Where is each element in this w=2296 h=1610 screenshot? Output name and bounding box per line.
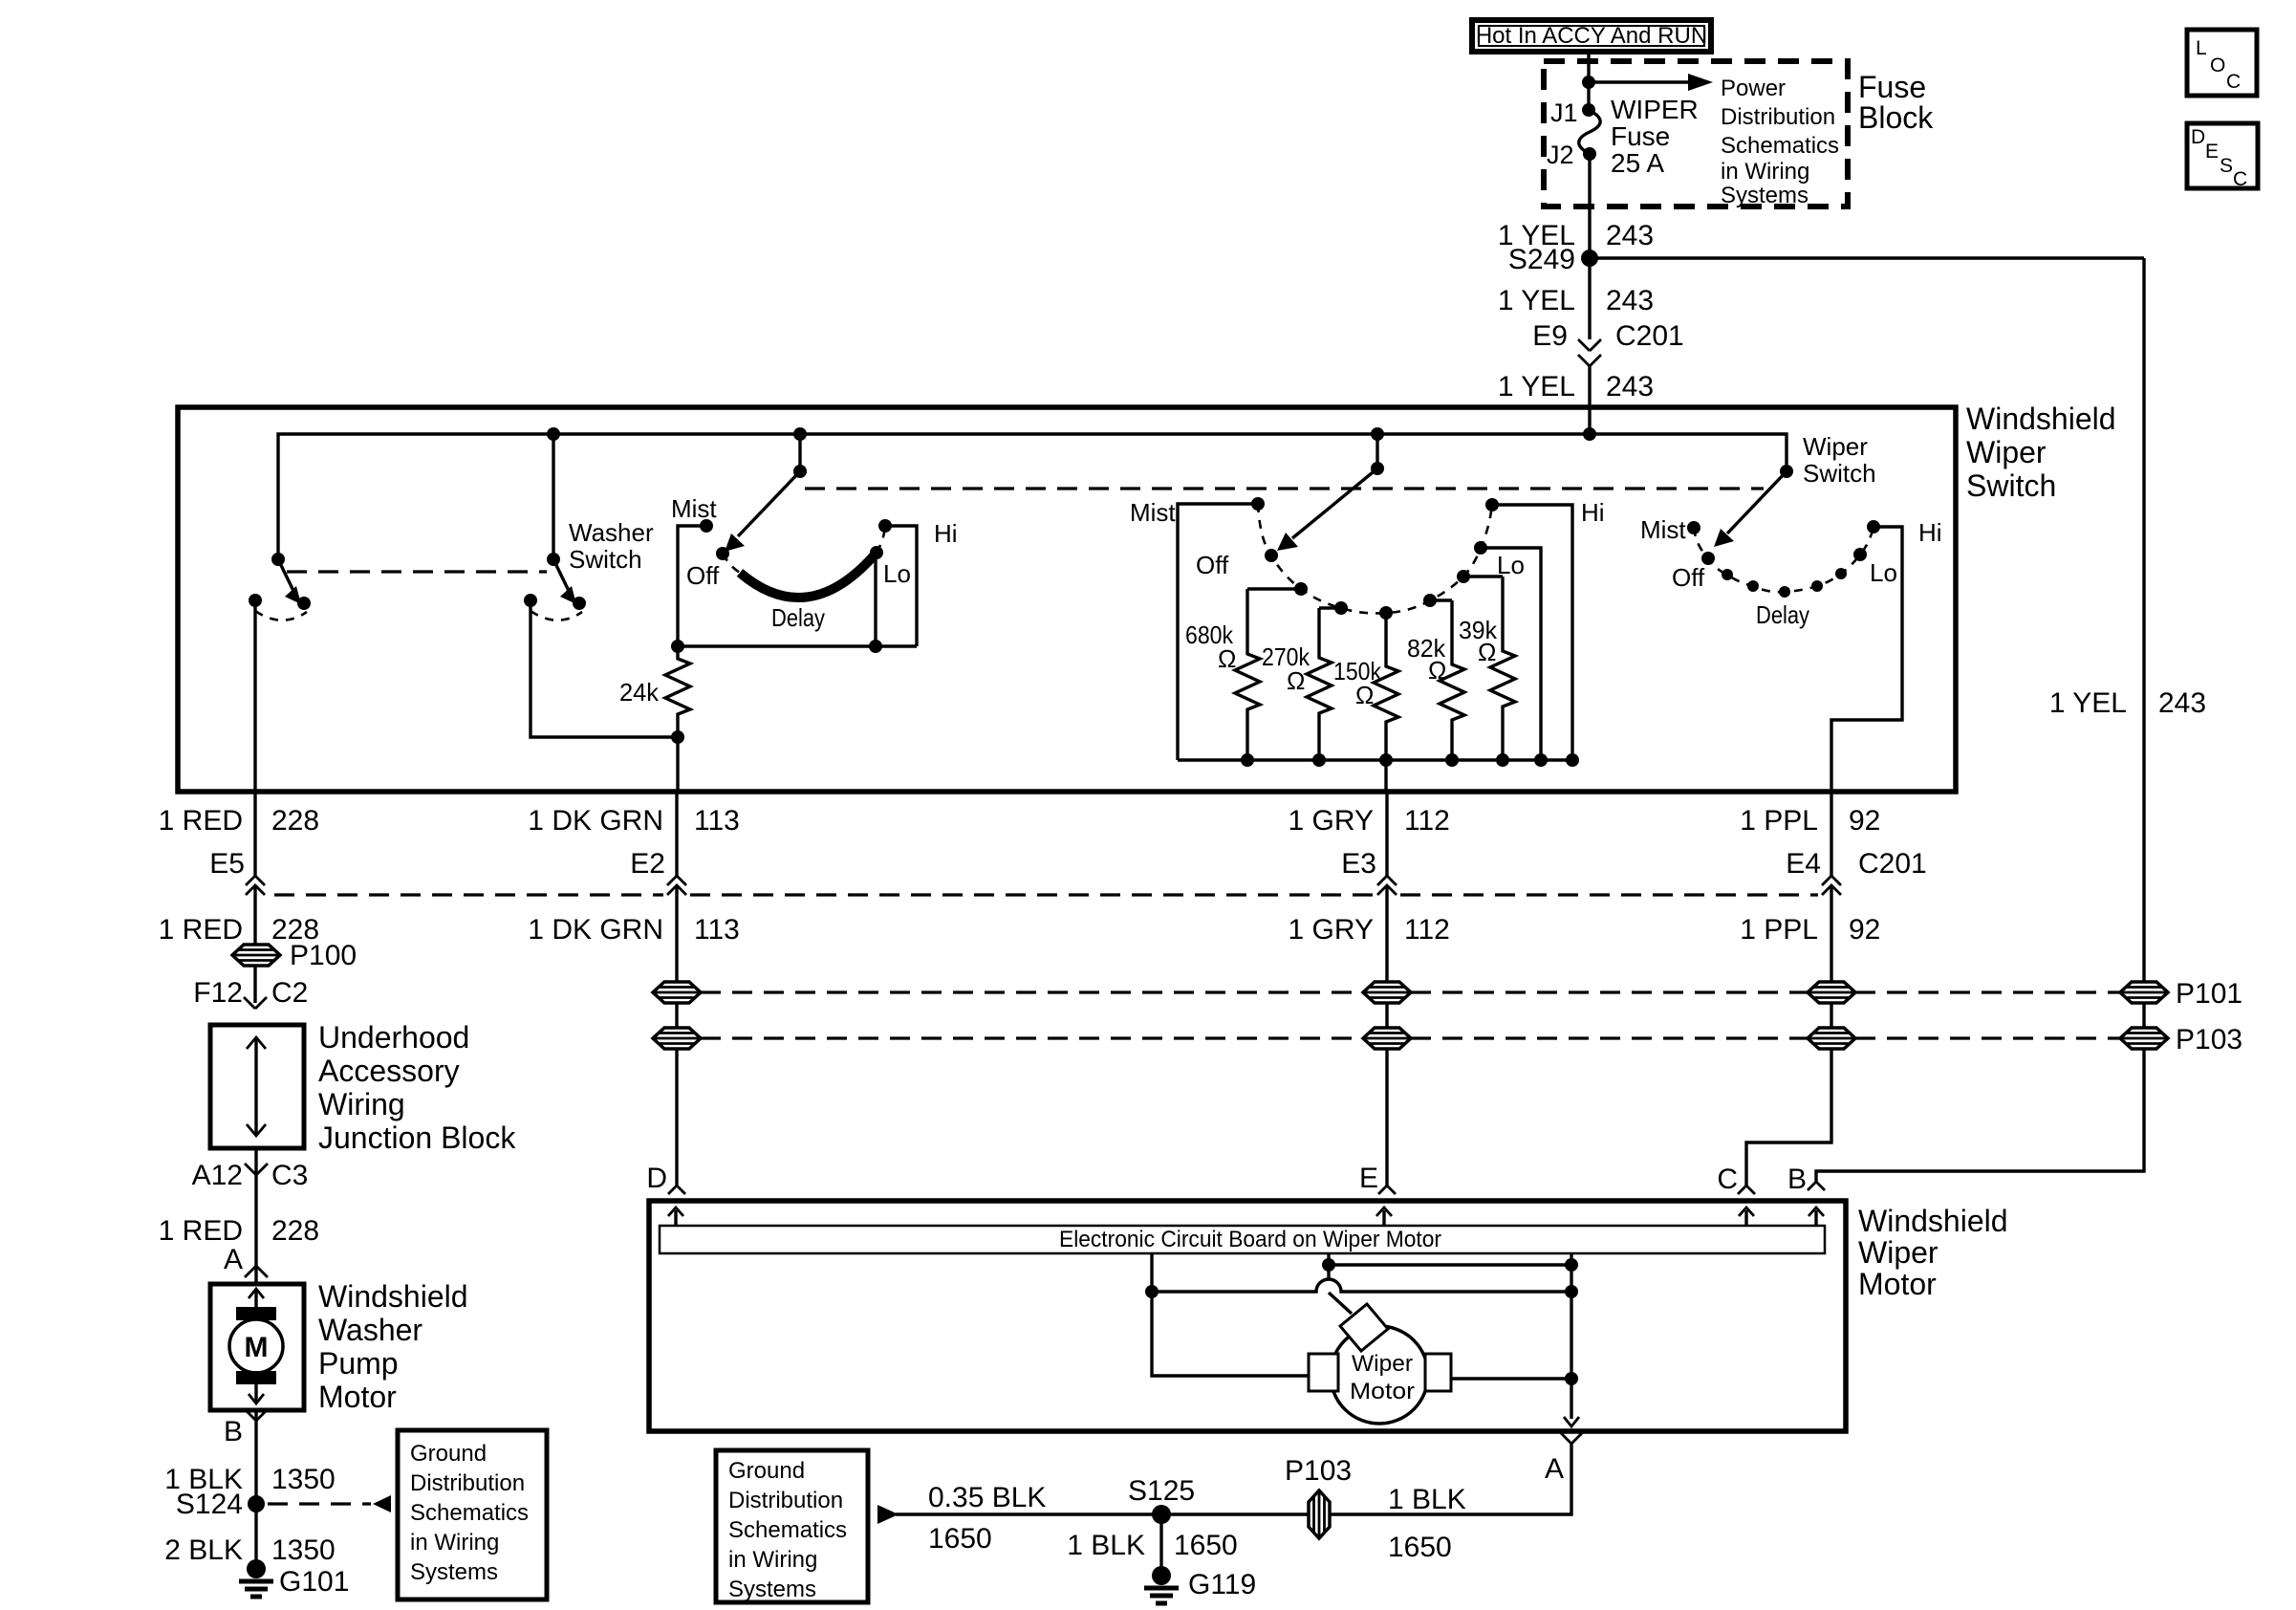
splice S249	[1581, 250, 1598, 267]
wire 1 YEL 243 right side vertical	[1816, 258, 2144, 1182]
svg-text:1 YEL: 1 YEL	[2049, 687, 2127, 719]
wire motor right terminal to right leg	[1451, 1377, 1571, 1380]
svg-text:Windshield: Windshield	[1858, 1204, 2008, 1238]
svg-text:P101: P101	[2176, 978, 2242, 1010]
washer switch pole 1 moving contact	[297, 597, 311, 610]
svg-text:1 GRY: 1 GRY	[1289, 805, 1375, 837]
connector C201 pin E4	[1822, 876, 1841, 885]
svg-text:0.35 BLK: 0.35 BLK	[928, 1482, 1046, 1513]
svg-text:Hi: Hi	[1918, 518, 1942, 547]
washer switch pole 1 pivot	[271, 553, 285, 566]
wiper motor terminal left	[1309, 1354, 1338, 1391]
wire center top link	[1329, 1263, 1571, 1266]
svg-text:Accessory: Accessory	[318, 1054, 460, 1088]
svg-text:Hi: Hi	[934, 519, 958, 548]
svg-text:228: 228	[271, 1215, 319, 1247]
label 1 GRY 112 (row2)	[1289, 914, 1450, 946]
svg-text:Wiring: Wiring	[318, 1087, 405, 1121]
wire E2 below box	[675, 792, 678, 876]
wire from S249 to right edge	[1590, 256, 2144, 259]
label 1 RED 228 (row3)	[159, 1215, 319, 1247]
svg-text:Electronic Circuit Board on Wi: Electronic Circuit Board on Wiper Motor	[1059, 1227, 1441, 1252]
right switch Mist contact	[1687, 521, 1700, 534]
node Lo rail bottom	[1534, 753, 1548, 767]
svg-text:Block: Block	[1858, 100, 1934, 135]
resistor R 270k	[1307, 608, 1332, 760]
label Wiper Switch (right pole)	[1803, 432, 1876, 488]
svg-text:Wiper: Wiper	[1858, 1235, 1939, 1270]
wire right Hi output to box edge (E4)	[1831, 527, 1902, 792]
svg-text:S249: S249	[1508, 244, 1575, 275]
pass-through grommet P103-YEL	[2120, 1028, 2168, 1049]
svg-text:A: A	[224, 1244, 243, 1275]
label 1 BLK 1650 (right)	[1388, 1484, 1466, 1563]
wire Hi contact right and down	[885, 526, 917, 646]
wiper motor armature circle	[1331, 1326, 1428, 1424]
svg-text:in Wiring: in Wiring	[410, 1530, 499, 1556]
svg-text:Hot In ACCY And RUN: Hot In ACCY And RUN	[1476, 23, 1707, 49]
center switch tap dot 680k	[1294, 582, 1308, 596]
svg-text:Distribution: Distribution	[728, 1488, 843, 1513]
label 1 PPL 92 (row2)	[1740, 914, 1880, 946]
pin J1	[1582, 103, 1595, 117]
svg-text:A: A	[1545, 1453, 1564, 1485]
node right leg motor	[1565, 1372, 1578, 1385]
label 1 DK GRN 113 (row2)	[528, 914, 740, 946]
center switch tap dot 150k	[1379, 606, 1393, 620]
center switch dashed arc	[1258, 504, 1492, 613]
svg-text:Switch: Switch	[1803, 459, 1876, 488]
svg-text:1 PPL: 1 PPL	[1740, 914, 1818, 946]
svg-text:G119: G119	[1188, 1569, 1256, 1600]
svg-text:113: 113	[694, 914, 740, 946]
svg-text:Ω: Ω	[1355, 681, 1374, 709]
svg-text:Fuse: Fuse	[1611, 121, 1670, 151]
center switch Mist contact	[1251, 497, 1265, 511]
svg-text:Off: Off	[686, 561, 720, 590]
svg-text:Power: Power	[1721, 76, 1786, 101]
svg-text:24k: 24k	[619, 678, 660, 707]
LOC button box	[2187, 30, 2257, 96]
connector chevron pin B	[1808, 1182, 1825, 1190]
delay switch thick delay arc	[740, 553, 877, 598]
svg-text:Windshield: Windshield	[318, 1279, 468, 1314]
fuse block dashed box	[1544, 61, 1848, 207]
pass-through grommet P101-E2	[653, 982, 701, 1003]
wiper motor terminal right	[1425, 1354, 1451, 1391]
svg-text:112: 112	[1404, 805, 1450, 837]
svg-text:1 PPL: 1 PPL	[1740, 805, 1818, 837]
node center pivot feed	[1371, 427, 1384, 441]
svg-text:Mist: Mist	[1640, 515, 1686, 544]
node right leg top	[1565, 1258, 1578, 1272]
svg-text:Off: Off	[1672, 563, 1705, 592]
svg-text:112: 112	[1404, 914, 1450, 946]
resistor 24k	[665, 646, 690, 737]
svg-text:D: D	[2191, 126, 2205, 148]
center wiper switch pivot	[1371, 462, 1384, 475]
wire pump to ground	[254, 1410, 257, 1564]
node 24k top	[671, 640, 684, 653]
label E4 C201	[1786, 848, 1926, 880]
wire washer pole 2 to 24k bottom node	[531, 600, 678, 737]
center switch tap dot 39k	[1457, 570, 1470, 583]
label 1 YEL 243 (right vertical)	[2049, 687, 2206, 719]
connector P103 (ground run)	[1309, 1490, 1330, 1538]
node 270k bottom	[1312, 753, 1326, 767]
right switch dashed arc	[1694, 527, 1874, 592]
wire center output to box edge (E3)	[1384, 760, 1387, 792]
svg-text:92: 92	[1849, 914, 1880, 946]
svg-text:C: C	[2226, 71, 2241, 93]
svg-text:Motor: Motor	[1858, 1267, 1937, 1301]
connector C201 pin E3	[1377, 876, 1397, 885]
svg-text:243: 243	[1606, 371, 1654, 402]
pass-through grommet P103-E2	[653, 1028, 701, 1049]
wire pin A to ground run	[896, 1444, 1571, 1514]
right switch delay dot 4	[1811, 580, 1823, 592]
wire brush feed diagonal	[1329, 1293, 1352, 1314]
svg-text:Junction Block: Junction Block	[318, 1120, 516, 1155]
right switch Off contact	[1701, 552, 1715, 565]
connector chevron A12	[245, 1164, 268, 1175]
svg-text:243: 243	[1606, 285, 1654, 316]
svg-text:Schematics: Schematics	[410, 1500, 529, 1526]
svg-text:1 DK GRN: 1 DK GRN	[528, 914, 663, 946]
svg-text:243: 243	[1606, 220, 1654, 251]
svg-text:25 A: 25 A	[1611, 148, 1664, 178]
svg-text:C201: C201	[1615, 320, 1684, 352]
svg-text:1650: 1650	[1388, 1532, 1452, 1563]
delay switch dashed arc off-delay	[723, 554, 740, 573]
connector C201 pin E9	[1532, 320, 1683, 366]
label 1 YEL 243 (row 1)	[1498, 220, 1654, 251]
svg-text:Underhood: Underhood	[318, 1020, 469, 1055]
wire center Mist contact to left rail	[1178, 504, 1258, 760]
wire from header into fuse block	[1587, 54, 1590, 110]
wire washer pole1 contact to box edge (E5)	[253, 600, 256, 792]
connector P103 dashed line	[701, 1036, 2120, 1039]
svg-text:Wiper: Wiper	[1803, 432, 1868, 461]
svg-text:Ω: Ω	[1287, 666, 1305, 695]
ground distribution reference box (left)	[398, 1430, 547, 1599]
node left leg junction	[1145, 1285, 1159, 1298]
wire E2 to wiper motor pin D	[675, 885, 678, 1186]
resistor R 680k	[1235, 589, 1260, 760]
wire 24k bottom to box edge (E2)	[676, 737, 679, 792]
connector chevron pin A pump	[245, 1266, 268, 1277]
svg-text:E: E	[1359, 1163, 1378, 1194]
svg-text:1 BLK: 1 BLK	[1067, 1530, 1145, 1561]
delay wiper switch pivot	[793, 465, 807, 478]
svg-text:228: 228	[271, 805, 319, 837]
svg-text:Delay: Delay	[1756, 600, 1809, 629]
washer pump bottom arrow	[254, 1383, 257, 1403]
washer switch pole 2 fixed contact	[524, 594, 537, 607]
label 1 RED 228 (row1)	[159, 805, 319, 837]
svg-text:2 BLK: 2 BLK	[164, 1534, 243, 1566]
resistor network bottom rail	[1178, 758, 1572, 761]
svg-text:1 DK GRN: 1 DK GRN	[528, 805, 663, 837]
svg-text:Hi: Hi	[1581, 498, 1605, 527]
node 24k bottom	[671, 730, 684, 744]
center wiper switch arm	[1292, 468, 1377, 538]
svg-text:P100: P100	[290, 940, 357, 971]
delay switch Hi contact	[878, 519, 892, 533]
svg-text:D: D	[646, 1163, 667, 1194]
node yel entry	[1583, 427, 1596, 441]
svg-text:J2: J2	[1547, 141, 1574, 169]
right switch delay dot 5	[1835, 568, 1847, 579]
delay switch dashed arc delay-hi	[877, 528, 885, 553]
wiper switch gang dashed link	[805, 487, 1764, 490]
node center leg junction	[1322, 1258, 1335, 1272]
washer pump brush bottom	[236, 1371, 276, 1384]
svg-text:A12: A12	[192, 1160, 243, 1191]
svg-text:in Wiring: in Wiring	[728, 1547, 817, 1573]
center switch tap dot 270k	[1334, 601, 1348, 615]
node right leg middle	[1565, 1285, 1578, 1298]
label Windshield Wiper Switch	[1966, 402, 2116, 503]
label 1 YEL 243 (row 2)	[1498, 285, 1654, 316]
wire board center leg	[1327, 1253, 1330, 1279]
connector chevron pin C	[1738, 1186, 1755, 1194]
pass-through grommet P100	[232, 945, 280, 966]
label 1 BLK 1650 (center)	[1067, 1530, 1237, 1561]
connector chevron pin B pump	[245, 1409, 268, 1421]
svg-text:Systems: Systems	[410, 1559, 498, 1585]
svg-text:1650: 1650	[928, 1523, 992, 1555]
right wiper switch pivot	[1780, 465, 1793, 478]
resistor R 82k	[1440, 600, 1464, 760]
label 1 PPL 92 (row1)	[1740, 805, 1880, 837]
svg-text:Lo: Lo	[883, 559, 911, 588]
svg-text:B: B	[1787, 1164, 1807, 1195]
wire center Lo contact down	[1481, 548, 1541, 760]
svg-text:Distribution: Distribution	[410, 1470, 525, 1496]
connector chevron pin A	[1560, 1432, 1583, 1444]
wire E5 to junction block	[253, 885, 256, 1003]
splice S125	[1152, 1505, 1171, 1524]
node delay pivot feed	[793, 427, 807, 441]
svg-text:Fuse: Fuse	[1858, 70, 1926, 104]
S124 dashed reference link	[268, 1502, 371, 1505]
svg-text:113: 113	[694, 805, 740, 837]
connector P101 dashed line	[701, 990, 2120, 993]
right switch delay dot 2	[1747, 580, 1759, 592]
wire E4 to wiper motor pin C	[1746, 885, 1831, 1186]
center switch Hi contact	[1485, 498, 1499, 511]
svg-text:Ω: Ω	[1478, 638, 1496, 666]
svg-text:1 RED: 1 RED	[159, 805, 243, 837]
arrow right leg to box edge	[1564, 1417, 1579, 1426]
wire board left leg	[1152, 1253, 1309, 1376]
splice S124	[248, 1495, 265, 1512]
svg-text:C: C	[2233, 168, 2247, 190]
svg-text:WIPER: WIPER	[1611, 95, 1699, 124]
svg-text:E9: E9	[1532, 320, 1568, 352]
svg-text:C: C	[1717, 1164, 1738, 1195]
svg-text:Windshield: Windshield	[1966, 402, 2116, 436]
right switch delay dot 3	[1779, 586, 1790, 598]
washer switch pole 1 arm	[278, 559, 293, 591]
junction block box	[210, 1025, 304, 1148]
pass-through grommet P101-E3	[1363, 982, 1411, 1003]
wire E3 to wiper motor pin E	[1385, 885, 1388, 1186]
svg-text:Systems: Systems	[728, 1577, 816, 1602]
svg-text:Ground: Ground	[410, 1441, 487, 1467]
fuse F WIPER 25A	[1579, 110, 1600, 154]
svg-text:in Wiring: in Wiring	[1721, 159, 1809, 185]
svg-text:C2: C2	[271, 977, 308, 1009]
svg-text:Schematics: Schematics	[728, 1517, 847, 1543]
node 39k bottom	[1496, 753, 1509, 767]
svg-text:Schematics: Schematics	[1721, 133, 1839, 159]
ground G101	[239, 1559, 273, 1597]
svg-text:Ω: Ω	[1428, 656, 1446, 685]
connector chevron pin E	[1378, 1186, 1396, 1194]
svg-text:S125: S125	[1128, 1475, 1195, 1507]
label 1 GRY 112 (row1)	[1289, 805, 1450, 837]
label Windshield Wiper Motor	[1858, 1204, 2008, 1301]
resistor R 39k	[1490, 577, 1515, 760]
washer switch pole 2 pivot	[547, 553, 560, 566]
wiper motor brush block	[1340, 1304, 1388, 1351]
svg-text:S124: S124	[176, 1489, 243, 1520]
node washer pivot feed	[547, 427, 560, 441]
svg-text:1 YEL: 1 YEL	[1498, 371, 1575, 402]
svg-text:1 BLK: 1 BLK	[1388, 1484, 1466, 1515]
svg-text:1 GRY: 1 GRY	[1289, 914, 1375, 946]
pass-through grommet P103-E3	[1363, 1028, 1411, 1049]
washer switch pole 1 fixed contact	[249, 594, 262, 607]
svg-text:Switch: Switch	[569, 545, 642, 574]
label Windshield Washer Pump Motor	[318, 1279, 468, 1414]
svg-text:E5: E5	[209, 848, 245, 880]
node 82k bottom	[1445, 753, 1459, 767]
svg-text:1 RED: 1 RED	[159, 914, 243, 946]
label 2 BLK 1350	[164, 1534, 335, 1566]
delay switch Lo contact	[870, 546, 883, 559]
svg-text:Washer: Washer	[318, 1313, 422, 1347]
node branch in fuse block	[1582, 76, 1595, 89]
ground G119	[1144, 1566, 1179, 1603]
label Washer Switch	[569, 518, 654, 574]
wire board right leg	[1570, 1253, 1572, 1419]
pass-through grommet P103-E4	[1808, 1028, 1855, 1049]
svg-text:Systems: Systems	[1721, 183, 1809, 208]
svg-text:Washer: Washer	[569, 518, 654, 547]
svg-text:E4: E4	[1786, 848, 1821, 880]
svg-text:M: M	[245, 1332, 269, 1363]
svg-text:E: E	[2205, 141, 2219, 163]
svg-text:P103: P103	[1285, 1455, 1352, 1487]
svg-text:Wiper: Wiper	[1966, 435, 2047, 469]
node 680k bottom	[1241, 753, 1254, 767]
center switch Off contact	[1265, 549, 1278, 562]
wire Mist contact to left rail	[678, 526, 706, 646]
wire E4 below box	[1830, 792, 1832, 876]
pin J2	[1583, 147, 1596, 161]
electronic circuit board strip	[660, 1226, 1825, 1253]
washer pump motor box	[210, 1284, 304, 1410]
svg-text:1350: 1350	[271, 1464, 336, 1495]
svg-text:O: O	[2210, 54, 2225, 76]
wire Lo contact down	[874, 553, 877, 646]
svg-text:243: 243	[2158, 687, 2206, 719]
svg-text:Delay: Delay	[771, 603, 825, 632]
svg-text:C3: C3	[271, 1160, 308, 1191]
svg-text:Lo: Lo	[1870, 558, 1897, 587]
center switch tap dot 82k	[1423, 594, 1437, 607]
svg-text:E3: E3	[1341, 848, 1376, 880]
delay switch Off contact	[716, 547, 729, 560]
svg-text:P103: P103	[2176, 1024, 2242, 1055]
svg-text:B: B	[224, 1416, 243, 1447]
node Hi rail bottom	[1566, 753, 1579, 767]
right switch Hi contact	[1867, 520, 1880, 533]
svg-text:1 RED: 1 RED	[159, 1215, 243, 1247]
svg-text:Wiper: Wiper	[1352, 1351, 1413, 1377]
Hot In ACCY And RUN header box	[1472, 20, 1711, 52]
pin E arrow into board	[1382, 1210, 1385, 1226]
label A12 C3	[192, 1160, 309, 1191]
right switch delay dot 1	[1722, 569, 1733, 580]
connector C201 pin E2	[667, 876, 686, 885]
wire junction block to washer pump	[254, 1148, 257, 1284]
svg-text:L: L	[2196, 37, 2207, 59]
resistor R 150k	[1374, 613, 1398, 760]
washer switch pole 2 contact arc	[531, 611, 582, 620]
svg-text:E2: E2	[630, 848, 665, 880]
label 1 BLK 1350	[164, 1464, 335, 1495]
bus wire inside switch	[278, 434, 1787, 559]
pin D arrow into board	[674, 1210, 677, 1226]
wire crossover with hop	[1152, 1279, 1571, 1292]
washer switch pole 2 arm	[553, 559, 569, 591]
washer switch pole 1 contact arc	[255, 611, 307, 620]
connector chevron pin D	[668, 1186, 685, 1194]
delay switch Mist contact	[700, 519, 713, 533]
pin B arrow into board	[1814, 1210, 1817, 1226]
wire 243 from fuse to S249	[1588, 154, 1591, 339]
svg-text:Ground: Ground	[728, 1458, 805, 1484]
svg-text:Mist: Mist	[1130, 498, 1176, 527]
washer switch gang dashed link	[287, 570, 547, 573]
svg-text:F12: F12	[193, 977, 243, 1009]
wire E5 below box	[253, 792, 256, 876]
svg-text:1 YEL: 1 YEL	[1498, 285, 1575, 316]
label Underhood Accessory Wiring Junction Block	[318, 1020, 516, 1155]
svg-text:Distribution: Distribution	[1721, 104, 1835, 130]
windshield wiper motor box	[649, 1201, 1846, 1431]
windshield wiper switch box	[178, 407, 1956, 792]
right switch Lo contact	[1853, 548, 1867, 561]
washer pump brush top	[236, 1307, 276, 1320]
junction block internal arrow	[254, 1037, 257, 1136]
svg-text:1350: 1350	[271, 1534, 336, 1566]
wire center Hi contact right and down	[1492, 505, 1572, 760]
wire E3 below box	[1385, 792, 1388, 876]
washer switch pole 2 moving contact	[573, 597, 586, 610]
label 1 RED 228 (row2)	[159, 914, 319, 946]
connector chevron F12	[244, 997, 267, 1009]
svg-text:92: 92	[1849, 805, 1880, 837]
svg-text:Motor: Motor	[318, 1380, 397, 1414]
washer pump top arrow	[254, 1289, 257, 1309]
svg-text:Switch: Switch	[1966, 468, 2056, 503]
arrow to power distribution reference	[1589, 80, 1692, 83]
